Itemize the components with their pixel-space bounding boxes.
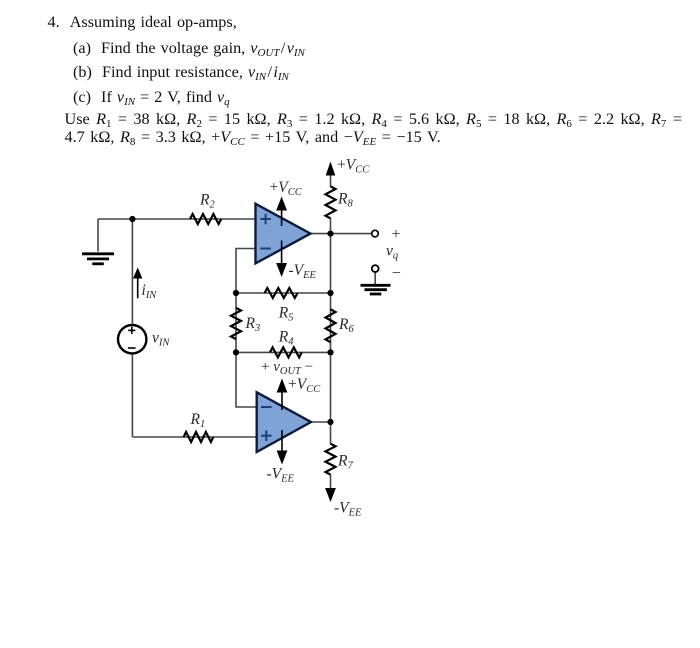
supply arrow +VCC on U2 [281, 388, 283, 410]
supply arrow -VEE on U1 [281, 241, 283, 267]
resistor R4 zigzag [270, 347, 302, 357]
wire: bottom row to R1 and op-amp U2 + input [132, 436, 256, 438]
op-amp U1 [256, 204, 311, 264]
resistor R1 zigzag [184, 432, 214, 442]
svg-text:R4: R4 [278, 329, 294, 348]
junction dot R5 right [327, 290, 333, 296]
item (b) [73, 64, 289, 84]
svg-text:-VEE: -VEE [289, 262, 317, 281]
junction dot R4 left [233, 349, 239, 355]
ground (left input) [82, 254, 114, 264]
svg-text:R8: R8 [337, 191, 353, 210]
svg-text:R7: R7 [337, 453, 353, 472]
item (a) [73, 40, 305, 60]
svg-text:R3: R3 [245, 315, 261, 334]
wire: R5 row [236, 292, 331, 294]
svg-text:vq: vq [386, 243, 398, 262]
resistor R5 zigzag [265, 288, 298, 298]
resistor R7 zigzag [326, 444, 336, 475]
junction dot U2 output node [327, 419, 333, 425]
wire: top row from ground to op-amp U1 + input [98, 218, 256, 220]
svg-text:+VCC: +VCC [337, 157, 370, 176]
wire: U1 inverting input to feedback column [236, 249, 257, 408]
supply arrow -VEE below R7 [325, 488, 336, 502]
svg-text:R1: R1 [190, 411, 206, 430]
wire: left ground stub [97, 219, 99, 252]
svg-text:+: + [392, 226, 401, 243]
junction dot U1 output node [327, 231, 333, 237]
supply arrow -VEE on U2 [281, 430, 283, 452]
resistor R3 zigzag [231, 308, 241, 339]
values line 2 [65, 129, 441, 149]
source vIN polarity marks [128, 327, 136, 348]
svg-text:R5: R5 [278, 305, 294, 324]
wire: left input column upper (node A to source) [131, 219, 133, 325]
svg-text:+VCC: +VCC [270, 179, 303, 198]
ground (vq reference) [361, 285, 391, 294]
current arrow iIN [137, 277, 139, 298]
supply arrow +VCC on U1 [281, 206, 283, 226]
wire: R4 row [236, 351, 331, 353]
wire: U1 output row to vq terminal [311, 233, 372, 235]
svg-text:-VEE: -VEE [267, 466, 295, 485]
svg-text:iIN: iIN [142, 282, 158, 301]
terminal vq - [372, 265, 379, 272]
wire: right rail upper (VCC arrow to R8) [330, 172, 332, 187]
svg-text:+ vOUT −: + vOUT − [261, 359, 313, 377]
svg-text:-VEE: -VEE [334, 500, 362, 519]
wire: U2 output to rail [311, 421, 331, 423]
supply arrow +VCC above R8 [330, 167, 332, 175]
wire: vq lower terminal stub [374, 272, 376, 285]
wire: right rail below R7 [330, 474, 332, 492]
wire: left input column lower (source to bottom row) [131, 353, 133, 437]
resistor R2 zigzag [190, 214, 221, 224]
wire: right rail R8 to R7 [330, 218, 332, 444]
svg-text:vIN: vIN [152, 330, 170, 349]
svg-text:+VCC: +VCC [288, 376, 321, 395]
item (c) [73, 89, 230, 109]
resistor R6 zigzag [326, 309, 336, 342]
junction dot R4 right [327, 349, 333, 355]
junction dot node A (input top) [129, 216, 135, 222]
op-amp U2 [257, 392, 311, 452]
values line 1 [65, 111, 682, 131]
svg-text:R6: R6 [338, 316, 354, 335]
junction dot R5 left [233, 290, 239, 296]
terminal vq + [372, 230, 379, 237]
resistor R8 zigzag [326, 186, 336, 218]
svg-text:R2: R2 [199, 192, 215, 211]
source vIN circle [118, 325, 146, 353]
svg-text:−: − [392, 265, 401, 282]
problem statement line 1 [48, 14, 237, 31]
